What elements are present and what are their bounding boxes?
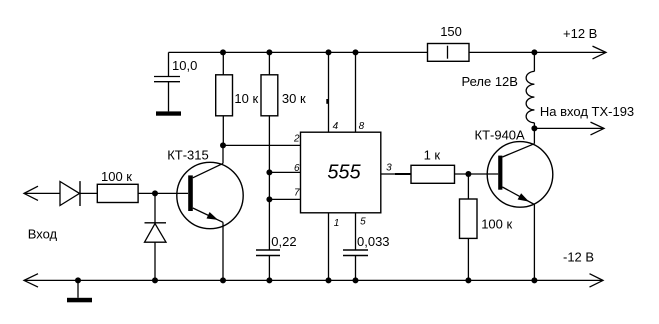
svg-text:4: 4 bbox=[333, 121, 339, 132]
diode D2 cathode bar bbox=[145, 222, 167, 224]
junction D2 / bottom rail bbox=[152, 277, 158, 283]
junction top rail / relay coil bbox=[531, 49, 537, 55]
wire Q2 emitter bbox=[533, 205, 535, 281]
svg-text:6: 6 bbox=[294, 163, 300, 174]
transistor Q2 emitter diagonal bbox=[502, 187, 534, 205]
wire pin 3 bbox=[381, 173, 396, 175]
transistor Q2 base bar bbox=[498, 156, 502, 190]
transistor Q2 collector diagonal bbox=[502, 144, 534, 157]
diode D2 triangle bbox=[145, 224, 167, 243]
junction pin4 top rail bbox=[326, 49, 332, 55]
svg-text:5: 5 bbox=[360, 216, 366, 227]
svg-text:10 к: 10 к bbox=[234, 91, 258, 106]
wire R 30k top stem bbox=[268, 52, 270, 74]
svg-text:КТ-940А: КТ-940А bbox=[475, 128, 526, 143]
arrow input end bbox=[24, 186, 38, 200]
junction Q1 emitter / bottom rail bbox=[220, 277, 226, 283]
transistor Q2 emitter arrow bbox=[518, 193, 529, 201]
resistor R 10k bbox=[216, 75, 233, 116]
junction top rail / R 30k bbox=[266, 49, 272, 55]
resistor R 150 power mark bbox=[447, 46, 449, 59]
resistor R 150 bbox=[428, 44, 470, 62]
junction Q2 emitter / bottom rail bbox=[531, 277, 537, 283]
transistor Q1 emitter arrow bbox=[207, 212, 219, 220]
svg-text:На вход ТХ-193: На вход ТХ-193 bbox=[540, 104, 634, 119]
junction 100k / diode D2 / base bbox=[152, 190, 158, 196]
capacitor C1 lower stem bbox=[168, 82, 170, 111]
junction top rail / R 10k bbox=[220, 49, 226, 55]
junction 30k line / pin6 bbox=[266, 169, 272, 175]
wire 1k to base KT-940A bbox=[455, 173, 499, 175]
capacitor C 0,22 bottom stem bbox=[268, 256, 270, 281]
svg-text:КТ-315: КТ-315 bbox=[167, 148, 209, 163]
transistor Q2 KT-940A body circle bbox=[487, 142, 553, 208]
svg-text:Вход: Вход bbox=[28, 226, 58, 241]
resistor R 100k (left) bbox=[97, 184, 138, 202]
svg-text:0,22: 0,22 bbox=[271, 234, 296, 249]
wire Q1 emitter bbox=[222, 222, 224, 280]
resistor R 100k (right) bbox=[460, 199, 478, 238]
capacitor C1 bottom electrode bar bbox=[156, 111, 181, 115]
wire Q2 collector bbox=[533, 128, 535, 143]
wire pin 6 bbox=[269, 171, 300, 173]
capacitor C 0,033 plates bbox=[343, 249, 368, 251]
wire R 10k top stem bbox=[222, 52, 224, 74]
ground bar bbox=[67, 298, 92, 303]
wire pin 8 bbox=[355, 52, 357, 132]
svg-text:Реле 12В: Реле 12В bbox=[462, 74, 518, 89]
arrow +12V rail end bbox=[593, 46, 607, 59]
svg-text:1: 1 bbox=[334, 218, 340, 229]
junction pin1 / bottom rail bbox=[326, 277, 332, 283]
capacitor C1 10,0 stem bbox=[168, 52, 170, 76]
wire D2 bottom stem bbox=[154, 242, 156, 280]
svg-text:+12 В: +12 В bbox=[563, 26, 597, 41]
svg-text:8: 8 bbox=[359, 121, 365, 132]
resistor R 1k bbox=[411, 165, 455, 183]
junction pin8 top rail bbox=[353, 49, 359, 55]
arrow bottom rail right end bbox=[590, 274, 604, 287]
diode D1 cathode bar bbox=[79, 181, 81, 206]
arrow output end bbox=[591, 122, 605, 135]
junction R 100k / bottom rail bbox=[465, 277, 471, 283]
artifact mark on pin4 wire bbox=[326, 99, 328, 104]
relay coil L1 bbox=[526, 71, 534, 122]
wire pin 1 bbox=[328, 213, 330, 281]
wire bottom -12V rail bbox=[24, 279, 603, 281]
transistor Q1 emitter diagonal bbox=[193, 208, 223, 222]
wire Q1 collector bbox=[222, 145, 224, 163]
wire pin 7 bbox=[269, 198, 300, 200]
wire D2 top stem bbox=[154, 193, 156, 222]
svg-text:100 к: 100 к bbox=[101, 169, 132, 184]
wire pin 2 bbox=[223, 144, 301, 146]
wire 100k to base KT-315 bbox=[138, 192, 188, 194]
resistor R 30k bbox=[261, 75, 278, 116]
wire coil top stem bbox=[533, 52, 535, 71]
svg-text:3: 3 bbox=[386, 163, 392, 174]
wire R 10k bottom stem bbox=[222, 116, 224, 146]
svg-text:1 к: 1 к bbox=[424, 147, 441, 162]
wire R 30k bottom to pins 6,7 and C 0,22 bbox=[268, 116, 270, 250]
junction 30k line / pin7 bbox=[266, 196, 272, 202]
wire pin 3 thick segment bbox=[395, 173, 411, 175]
transistor Q1 collector diagonal bbox=[193, 163, 223, 177]
arrow bottom rail left end bbox=[24, 274, 38, 287]
svg-text:150: 150 bbox=[440, 24, 462, 39]
ground stem bbox=[77, 280, 79, 297]
junction 1k / 100k / base bbox=[465, 171, 471, 177]
transistor Q1 KT-315 body circle bbox=[177, 162, 243, 228]
svg-text:100 к: 100 к bbox=[481, 217, 512, 232]
junction ground / bottom rail bbox=[75, 277, 81, 283]
wire input left segment bbox=[24, 192, 60, 194]
svg-text:30 к: 30 к bbox=[282, 91, 306, 106]
junction 10k / pin2 / collector KT-315 bbox=[220, 142, 226, 148]
wire R 100k bottom stem bbox=[467, 238, 469, 280]
wire R 100k top stem bbox=[467, 174, 469, 199]
transistor Q1 base bar bbox=[188, 175, 193, 211]
wire coil bottom stem bbox=[533, 123, 535, 129]
diode D1 triangle bbox=[60, 182, 80, 206]
svg-text:7: 7 bbox=[294, 188, 300, 199]
junction C 0,033 / bottom rail bbox=[353, 277, 359, 283]
svg-text:555: 555 bbox=[327, 162, 361, 184]
capacitor C1 10,0 plates bbox=[154, 76, 180, 78]
svg-text:10,0: 10,0 bbox=[172, 58, 197, 73]
svg-text:-12 В: -12 В bbox=[563, 250, 594, 265]
IC U1 555 body bbox=[301, 132, 381, 213]
wire pin 4 bbox=[328, 52, 330, 132]
wire output to TX-193 bbox=[534, 127, 604, 129]
wire top +12V rail bbox=[169, 51, 607, 53]
capacitor C 0,22 plates bbox=[256, 249, 280, 251]
wire pin 5 bbox=[355, 213, 357, 250]
junction C 0,22 / bottom rail bbox=[266, 277, 272, 283]
svg-text:2: 2 bbox=[293, 133, 300, 144]
capacitor C 0,033 bottom stem bbox=[355, 256, 357, 281]
wire D1 to R 100k bbox=[80, 192, 97, 194]
junction coil / collector / output bbox=[531, 125, 537, 131]
svg-text:0,033: 0,033 bbox=[357, 234, 390, 249]
